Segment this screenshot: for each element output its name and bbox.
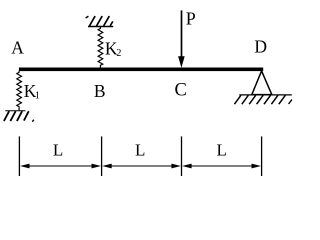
dimension tick at B — [101, 136, 103, 176]
dimension arrow A-B: left head — [20, 164, 30, 169]
dimension arrow C-D: line — [190, 165, 254, 167]
svg-text:L: L — [217, 140, 227, 159]
pin ground hatch 6 — [271, 95, 278, 104]
overhead support: partial hatch right — [110, 21, 113, 25]
overhead support: hatch 2 — [97, 16, 103, 26]
overhead support: hatch 3 — [104, 16, 110, 26]
svg-text:C: C — [175, 81, 187, 101]
dimension tick at A — [18, 136, 20, 176]
pin ground hatch 7 — [279, 95, 286, 104]
svg-text:P: P — [186, 8, 196, 28]
pin ground hatch 2 — [242, 95, 249, 104]
force P: arrowhead — [178, 56, 185, 67]
dimension arrow B-C: left head — [102, 164, 112, 169]
ground under K1: hatch 3 — [17, 111, 22, 121]
spring K1 — [17, 71, 22, 111]
dimension arrow B-C: right head — [171, 164, 181, 169]
spring K2 — [98, 27, 103, 68]
pin ground partial hatch — [289, 100, 292, 104]
ground under K1: hatch 2 — [10, 111, 15, 121]
pin support at D: triangle — [252, 71, 272, 95]
svg-text:2: 2 — [116, 48, 121, 59]
dimension arrow C-D: left head — [182, 164, 192, 169]
svg-text:A: A — [11, 38, 24, 58]
dimension tick at C — [181, 136, 183, 176]
pin ground hatch 3 — [249, 95, 256, 104]
pin ground hatch 4 — [257, 95, 264, 104]
overhead support at B: surface line — [88, 26, 113, 28]
ground under K1: hatch 4 — [24, 111, 29, 120]
overhead support: partial hatch left — [86, 16, 89, 18]
svg-text:L: L — [135, 140, 145, 159]
svg-text:1: 1 — [35, 91, 40, 102]
svg-text:B: B — [94, 81, 106, 101]
pin support ground line — [239, 94, 291, 96]
dimension arrow A-B: right head — [92, 164, 102, 169]
dimension arrow B-C: line — [110, 165, 174, 167]
dimension tick at D — [261, 136, 263, 176]
force P: arrow shaft — [181, 10, 183, 58]
dimension arrow C-D: right head — [252, 164, 262, 169]
ground under K1: hatch 1 — [4, 111, 9, 121]
pin ground hatch 1 — [234, 95, 241, 104]
beam A-D — [19, 68, 263, 72]
overhead support: hatch 1 — [89, 16, 95, 26]
ground under K1: partial hatch — [32, 120, 34, 122]
svg-text:D: D — [254, 37, 267, 57]
svg-text:L: L — [53, 140, 63, 159]
ground under K1: surface line — [5, 110, 25, 112]
pin ground hatch 5 — [264, 95, 271, 104]
dimension arrow A-B: line — [28, 165, 94, 167]
